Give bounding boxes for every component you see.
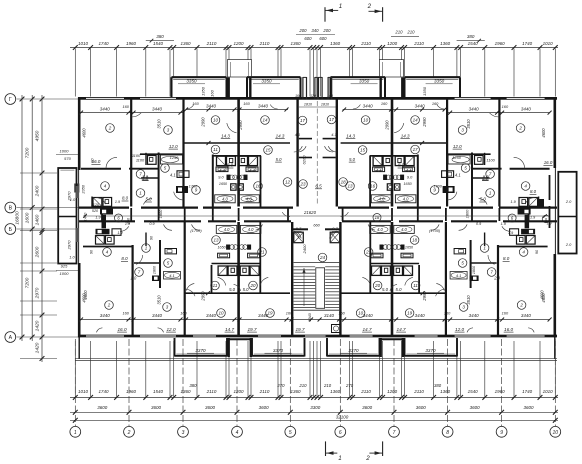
svg-text:1540: 1540 [153, 41, 164, 46]
upper core tubs [215, 195, 236, 203]
svg-text:4.0: 4.0 [377, 227, 383, 232]
svg-text:18: 18 [341, 180, 347, 185]
svg-text:3440: 3440 [521, 313, 532, 318]
svg-text:120: 120 [310, 94, 316, 98]
wall y293 middle zones lower [185, 292, 290, 294]
svg-text:24: 24 [319, 255, 326, 260]
upper core wc [231, 184, 236, 190]
svg-text:1.9: 1.9 [530, 216, 535, 220]
upper core sinks [216, 167, 228, 172]
svg-text:200: 200 [322, 28, 331, 33]
svg-text:14.3: 14.3 [276, 133, 285, 138]
svg-text:5.0: 5.0 [229, 287, 236, 292]
upper core tubs [395, 195, 416, 203]
svg-text:1: 1 [338, 455, 341, 462]
section mark 2 top [382, 7, 384, 22]
svg-text:4.4: 4.4 [249, 168, 255, 173]
lower-left core [102, 215, 107, 229]
svg-text:160: 160 [432, 101, 439, 106]
lower core bath boxes [218, 266, 227, 275]
svg-text:3440: 3440 [469, 313, 480, 318]
svg-text:1.0: 1.0 [69, 255, 75, 260]
lower core sinks [218, 253, 230, 258]
bottom dimension row A [70, 396, 558, 398]
svg-text:3440: 3440 [100, 106, 111, 111]
svg-text:1360: 1360 [290, 41, 301, 46]
section mark 1 bottom [325, 441, 327, 456]
lower-left tub box [164, 272, 181, 280]
axis circle left &#1040; [5, 332, 16, 343]
svg-text:1: 1 [74, 430, 77, 436]
svg-text:20: 20 [374, 283, 381, 288]
svg-text:1800: 1800 [472, 265, 476, 274]
stair treads [294, 266, 316, 268]
top interior dim line outer zones [81, 112, 183, 114]
svg-text:12.0: 12.0 [455, 327, 465, 332]
lower core stoves [226, 245, 230, 250]
svg-text:1350: 1350 [422, 86, 427, 96]
svg-text:15: 15 [265, 148, 271, 153]
room circles lower band [103, 248, 112, 257]
bottom interior dim line [81, 319, 550, 321]
svg-text:14.7: 14.7 [225, 327, 235, 332]
svg-text:1010: 1010 [543, 389, 554, 394]
svg-text:0.9: 0.9 [476, 222, 481, 226]
svg-text:А: А [9, 335, 13, 341]
svg-text:160: 160 [210, 89, 215, 96]
lower core tubs [216, 225, 237, 233]
svg-text:1800: 1800 [158, 209, 163, 218]
svg-text:9: 9 [500, 430, 503, 436]
svg-text:160: 160 [327, 94, 333, 98]
svg-text:4.1: 4.1 [456, 273, 461, 278]
svg-text:3600: 3600 [362, 405, 373, 410]
svg-text:1.9: 1.9 [95, 216, 100, 220]
svg-text:1.9: 1.9 [501, 222, 506, 226]
svg-text:3440: 3440 [206, 103, 217, 108]
svg-text:19.7: 19.7 [247, 327, 257, 332]
svg-text:2990: 2990 [238, 120, 243, 131]
top bay [331, 76, 386, 78]
svg-text:14.7: 14.7 [397, 327, 407, 332]
central shaft walls [296, 99, 298, 207]
svg-text:2: 2 [108, 126, 112, 131]
bottom terrace [251, 338, 253, 357]
top mini dims [146, 40, 174, 42]
svg-text:4.1: 4.1 [331, 132, 336, 137]
top bay [247, 76, 301, 78]
svg-text:1250: 1250 [452, 155, 461, 160]
balcony door arcs bottom [96, 328, 102, 333]
svg-text:2400: 2400 [302, 244, 307, 255]
svg-text:4600: 4600 [82, 293, 87, 303]
top bay [172, 76, 227, 78]
svg-text:1250: 1250 [170, 155, 179, 160]
upper-left washing machine [177, 171, 189, 178]
svg-text:3600: 3600 [416, 405, 427, 410]
svg-text:160: 160 [502, 311, 509, 316]
svg-text:1200: 1200 [233, 389, 244, 394]
svg-text:2110: 2110 [413, 389, 424, 394]
svg-text:3440: 3440 [363, 103, 374, 108]
alcove wall y178 [141, 177, 159, 179]
outer wall top [78, 97, 557, 100]
svg-text:3510: 3510 [466, 119, 471, 129]
upper-left counter [443, 186, 455, 193]
bottom terrace [174, 338, 176, 357]
svg-text:4.0: 4.0 [224, 227, 230, 232]
axis circle 5 [285, 426, 296, 437]
svg-text:7200: 7200 [25, 277, 31, 288]
svg-text:4.1: 4.1 [455, 173, 461, 178]
svg-text:1420: 1420 [34, 342, 40, 353]
svg-text:1800: 1800 [153, 265, 157, 274]
lower-left misc walls [134, 262, 160, 264]
svg-text:11: 11 [213, 283, 218, 288]
upper-left washing machine [442, 171, 454, 178]
svg-text:3370: 3370 [425, 348, 436, 353]
svg-text:1600: 1600 [25, 212, 31, 223]
svg-text:18: 18 [375, 215, 380, 220]
svg-text:2110: 2110 [206, 389, 217, 394]
section mark 1 top [324, 7, 326, 22]
svg-text:1010: 1010 [78, 389, 89, 394]
svg-text:0.7: 0.7 [296, 226, 302, 231]
svg-text:1360: 1360 [330, 389, 341, 394]
svg-text:2110: 2110 [259, 41, 270, 46]
svg-text:210: 210 [323, 383, 332, 388]
svg-text:10: 10 [358, 311, 364, 316]
vent shaft left wall [74, 184, 79, 193]
lower-left counter [152, 276, 161, 282]
svg-text:160: 160 [295, 94, 301, 98]
lower core bath boxes [404, 266, 413, 275]
svg-text:3350: 3350 [261, 78, 272, 83]
svg-text:2: 2 [519, 303, 523, 308]
top porch [380, 78, 382, 98]
svg-text:12.0: 12.0 [169, 144, 178, 149]
svg-text:3600: 3600 [523, 405, 534, 410]
lower core stoves [401, 245, 405, 250]
svg-text:1700: 1700 [433, 184, 442, 189]
wall feet [78, 337, 80, 359]
top extension lines [74, 49, 76, 97]
walls y154 upper cores [140, 153, 184, 155]
svg-text:2.0: 2.0 [493, 276, 500, 281]
stairwell walls [291, 222, 293, 335]
bottom porch [380, 338, 382, 357]
svg-text:1810: 1810 [321, 103, 330, 107]
svg-text:2: 2 [365, 455, 370, 462]
svg-text:4.1: 4.1 [169, 273, 174, 278]
svg-text:15: 15 [360, 148, 366, 153]
svg-text:4.0: 4.0 [403, 196, 409, 201]
svg-text:1810: 1810 [304, 103, 313, 107]
extra door arcs [186, 105, 194, 110]
upper-left counter [176, 186, 188, 193]
svg-text:9.0: 9.0 [218, 174, 224, 179]
svg-text:17: 17 [300, 118, 306, 123]
svg-text:2: 2 [367, 3, 372, 10]
svg-text:1200: 1200 [233, 41, 244, 46]
svg-text:1940: 1940 [307, 312, 312, 321]
svg-text:1540: 1540 [468, 41, 479, 46]
svg-text:3440: 3440 [152, 313, 163, 318]
svg-text:14: 14 [413, 118, 419, 123]
svg-text:8.0: 8.0 [530, 189, 537, 194]
svg-text:1460: 1460 [34, 214, 40, 225]
stair direction line [303, 268, 305, 306]
svg-text:3510: 3510 [157, 295, 162, 305]
outer wall left [78, 97, 81, 170]
svg-text:1010: 1010 [543, 41, 554, 46]
svg-text:4.0: 4.0 [401, 227, 407, 232]
left dim line 16800 [21, 95, 23, 341]
svg-text:17: 17 [329, 117, 335, 122]
svg-text:600: 600 [319, 36, 327, 41]
svg-text:520: 520 [92, 209, 99, 213]
wall y246 lower-left [83, 246, 133, 248]
svg-text:200: 200 [298, 28, 307, 33]
left dim line detail [41, 95, 43, 362]
stair closets [294, 232, 304, 243]
svg-text:4.4: 4.4 [376, 168, 382, 173]
svg-text:4.1: 4.1 [170, 173, 176, 178]
svg-text:3510: 3510 [157, 119, 162, 129]
svg-text:1360: 1360 [180, 389, 191, 394]
svg-text:2110: 2110 [413, 41, 424, 46]
svg-text:В: В [9, 206, 13, 212]
svg-text:1200: 1200 [387, 41, 398, 46]
svg-text:3440: 3440 [100, 313, 111, 318]
top bay [405, 76, 461, 78]
section mark 2 bottom [382, 441, 384, 456]
right exterior bay [558, 172, 576, 254]
svg-text:32100: 32100 [336, 414, 349, 419]
svg-text:380: 380 [189, 383, 197, 388]
svg-text:8.0: 8.0 [503, 256, 510, 261]
svg-text:660: 660 [313, 223, 320, 228]
svg-text:3600: 3600 [205, 405, 216, 410]
lower core tubs [394, 225, 415, 233]
svg-text:2350: 2350 [80, 184, 85, 194]
left exterior bay [58, 168, 76, 264]
svg-text:10: 10 [218, 311, 224, 316]
svg-text:3350: 3350 [359, 78, 370, 83]
svg-text:1440: 1440 [83, 212, 88, 221]
svg-text:3350: 3350 [434, 78, 445, 83]
svg-text:11: 11 [213, 147, 218, 152]
svg-text:1200: 1200 [387, 389, 398, 394]
svg-text:3370: 3370 [273, 348, 284, 353]
lower-left core [525, 215, 530, 229]
svg-text:340: 340 [311, 28, 319, 33]
svg-text:2990: 2990 [422, 291, 427, 302]
svg-text:1360: 1360 [330, 41, 341, 46]
corridor wall upper [79, 207, 129, 209]
svg-text:21: 21 [258, 250, 265, 255]
svg-text:210: 210 [298, 383, 307, 388]
top interior dim line middle zones [186, 109, 288, 111]
svg-text:2.0: 2.0 [565, 242, 572, 247]
svg-text:3350: 3350 [186, 78, 197, 83]
svg-text:6260: 6260 [302, 155, 307, 165]
stair landings [294, 262, 340, 264]
svg-text:1960: 1960 [126, 389, 137, 394]
svg-text:1650: 1650 [405, 246, 414, 250]
svg-text:1960: 1960 [495, 41, 506, 46]
svg-text:1100: 1100 [486, 157, 495, 162]
svg-text:5.0: 5.0 [480, 197, 487, 202]
svg-text:2990: 2990 [201, 117, 206, 128]
svg-text:11: 11 [413, 283, 418, 288]
svg-text:2.0: 2.0 [482, 175, 490, 180]
svg-text:2.0: 2.0 [565, 199, 572, 204]
svg-text:380: 380 [156, 34, 164, 39]
svg-text:1350: 1350 [201, 86, 206, 96]
svg-text:14.3: 14.3 [221, 133, 230, 138]
svg-text:1740: 1740 [98, 389, 109, 394]
svg-text:5.0: 5.0 [396, 287, 403, 292]
svg-text:1540: 1540 [153, 389, 164, 394]
svg-text:5.0: 5.0 [243, 287, 250, 292]
right flat bath wall [549, 175, 551, 200]
svg-text:16.0: 16.0 [504, 327, 514, 332]
svg-text:5.0: 5.0 [276, 157, 282, 162]
svg-text:1740: 1740 [522, 389, 533, 394]
bottom porch [227, 338, 229, 357]
axis circle left &#1042; [5, 202, 16, 213]
svg-text:2970: 2970 [34, 287, 40, 299]
upper core stoves [400, 175, 404, 180]
svg-text:8.0: 8.0 [122, 196, 129, 201]
svg-text:4.1: 4.1 [295, 132, 300, 137]
corridor wall lower [79, 220, 135, 222]
door swing arcs [106, 157, 117, 168]
svg-text:2970: 2970 [67, 240, 72, 251]
svg-text:19.7: 19.7 [295, 327, 305, 332]
stair vestibule walls [292, 228, 308, 230]
svg-text:1650: 1650 [217, 246, 226, 250]
svg-text:4600: 4600 [541, 293, 546, 303]
lower-left washing machine [165, 249, 177, 254]
svg-text:Г: Г [9, 97, 12, 103]
svg-text:14.3: 14.3 [401, 133, 410, 138]
svg-text:16.0: 16.0 [544, 160, 553, 165]
svg-text:210: 210 [406, 30, 415, 35]
bottom terrace [326, 338, 328, 357]
svg-text:14.7: 14.7 [362, 327, 372, 332]
svg-text:1: 1 [339, 3, 342, 10]
svg-text:1000: 1000 [60, 271, 70, 276]
svg-text:8.0: 8.0 [398, 163, 405, 168]
axis circle 1 [70, 426, 81, 437]
svg-text:3: 3 [182, 430, 185, 436]
corridor dim line [83, 215, 548, 217]
svg-text:160: 160 [243, 101, 250, 106]
svg-text:4950: 4950 [34, 130, 40, 141]
svg-text:4.0: 4.0 [248, 227, 254, 232]
svg-text:10: 10 [363, 118, 369, 123]
svg-text:3600: 3600 [151, 405, 162, 410]
central shaft axis dashed [316, 101, 318, 205]
axis circle 4 [232, 426, 243, 437]
axis circle left &#1043; [5, 94, 16, 105]
svg-text:2.0: 2.0 [141, 175, 149, 180]
svg-text:3140: 3140 [324, 313, 335, 318]
svg-text:2.0: 2.0 [130, 276, 137, 281]
svg-text:1100: 1100 [132, 153, 141, 158]
wall y168 room2 [81, 168, 121, 170]
svg-text:17: 17 [413, 147, 419, 152]
svg-text:1960: 1960 [495, 389, 506, 394]
left dim line 7200/1600/7200 [31, 95, 33, 341]
svg-text:1000: 1000 [60, 149, 70, 154]
svg-text:5.0: 5.0 [382, 287, 389, 292]
svg-text:16: 16 [255, 184, 261, 189]
outer wall bottom [78, 335, 557, 338]
room circles upper band [106, 124, 115, 133]
svg-text:3440: 3440 [469, 106, 480, 111]
svg-text:16: 16 [370, 184, 376, 189]
upper core stoves [227, 175, 231, 180]
party walls upper band [130, 99, 132, 207]
svg-text:21: 21 [365, 250, 372, 255]
svg-text:3300: 3300 [310, 405, 321, 410]
lower-left counter [470, 276, 479, 282]
svg-text:4600: 4600 [541, 128, 546, 138]
svg-text:16.0: 16.0 [117, 327, 127, 332]
svg-text:16800: 16800 [15, 211, 21, 225]
svg-text:380: 380 [467, 34, 475, 39]
svg-text:1360: 1360 [290, 389, 301, 394]
svg-text:2110: 2110 [360, 389, 371, 394]
axis circle 8 [442, 426, 453, 437]
svg-text:19: 19 [407, 311, 413, 316]
svg-text:160: 160 [127, 217, 131, 224]
lower-left misc walls [471, 262, 497, 264]
svg-text:20: 20 [249, 283, 256, 288]
svg-text:1010: 1010 [78, 41, 89, 46]
svg-text:8: 8 [446, 430, 449, 436]
svg-text:12: 12 [285, 180, 291, 185]
svg-text:13: 13 [213, 238, 219, 243]
svg-text:2110: 2110 [360, 41, 371, 46]
svg-text:3440: 3440 [258, 103, 269, 108]
svg-text:8.0: 8.0 [227, 163, 234, 168]
svg-text:3440: 3440 [521, 106, 532, 111]
svg-text:4: 4 [236, 430, 239, 436]
svg-text:0.9: 0.9 [149, 222, 154, 226]
axis circle 3 [178, 426, 189, 437]
svg-text:21620: 21620 [303, 210, 317, 215]
svg-text:23: 23 [299, 182, 306, 187]
svg-text:1540: 1540 [468, 389, 479, 394]
svg-text:2600: 2600 [34, 246, 40, 258]
svg-text:210: 210 [394, 30, 403, 35]
lower-left tub box [450, 272, 467, 280]
svg-text:12.0: 12.0 [166, 327, 176, 332]
svg-text:5: 5 [289, 430, 292, 436]
svg-text:160: 160 [122, 104, 129, 109]
svg-text:1740: 1740 [522, 41, 533, 46]
svg-text:14: 14 [262, 118, 268, 123]
svg-text:1740: 1740 [98, 41, 109, 46]
svg-text:1360: 1360 [180, 41, 191, 46]
svg-text:3600: 3600 [470, 405, 481, 410]
wall y143 middle zones [184, 142, 291, 144]
party walls lower band [132, 245, 134, 335]
